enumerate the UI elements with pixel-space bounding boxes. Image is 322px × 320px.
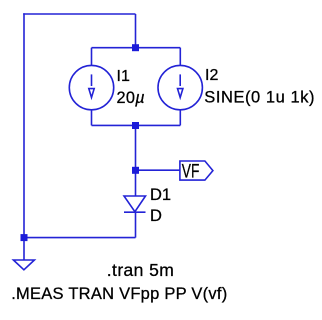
current source I1 arrow — [89, 74, 94, 97]
wire I1 top stub — [91, 48, 93, 66]
svg-text:I1: I1 — [117, 68, 130, 85]
wire below diode — [135, 212, 137, 237]
current source I2 arrow — [178, 74, 183, 97]
wire to VF flag — [136, 169, 181, 171]
current source I1 circle — [69, 65, 113, 109]
junction node ground left — [21, 234, 28, 241]
wire I2 top stub — [179, 48, 181, 66]
diode D1 cathode bar — [124, 211, 146, 213]
junction node N001 top — [132, 44, 139, 51]
wire bottom horizontal — [24, 237, 136, 239]
net flag VF outline — [180, 161, 213, 180]
svg-text:.MEAS TRAN VFpp PP V(vf): .MEAS TRAN VFpp PP V(vf) — [11, 285, 227, 303]
wire top outer horizontal — [23, 13, 135, 15]
wire I2 bottom stub — [179, 110, 181, 126]
ground symbol — [13, 260, 34, 270]
svg-text:SINE(0 1u 1k): SINE(0 1u 1k) — [204, 89, 315, 107]
junction node vf — [132, 167, 139, 174]
svg-text:20µ: 20µ — [117, 89, 145, 107]
wire inner top horizontal — [92, 47, 181, 49]
svg-text:D: D — [150, 207, 162, 225]
diode D1 triangle — [124, 196, 146, 212]
svg-text:I2: I2 — [205, 67, 218, 84]
svg-text:VF: VF — [182, 160, 200, 182]
wire inner bottom horizontal — [92, 124, 181, 126]
wire middle vertical to diode — [135, 125, 137, 196]
wire ground stub — [23, 238, 25, 260]
svg-text:D1: D1 — [150, 186, 171, 204]
junction node N002 mid — [132, 122, 139, 129]
wire left outer vertical — [23, 13, 25, 237]
svg-text:.tran 5m: .tran 5m — [107, 260, 174, 280]
wire top outer vertical drop to node N001 — [135, 14, 137, 48]
current source I2 circle — [158, 65, 202, 109]
wire I1 bottom stub — [91, 110, 93, 126]
